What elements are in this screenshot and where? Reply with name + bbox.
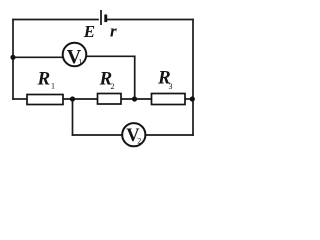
resistor R2 [98,69,122,105]
svg-text:1: 1 [78,58,82,67]
resistor R3 [152,68,186,105]
wire V2 right [145,134,194,136]
resistor R1 [27,69,63,105]
wire resistor row seg2 [63,98,98,100]
wire V1 right [86,55,135,57]
wire top-left segment [13,19,98,21]
wire resistor row seg4 [185,98,193,100]
wire right vertical [192,20,194,136]
svg-text:2: 2 [137,136,141,145]
svg-text:r: r [110,21,117,40]
svg-text:3: 3 [169,82,173,91]
svg-text:2: 2 [111,82,115,91]
wire top-right segment [107,19,193,21]
node dot between R2 and R3 [132,96,137,101]
node dot between R1 and R2 [70,96,75,101]
wire resistor row seg3 [121,98,152,100]
wire V2 left [73,134,124,136]
svg-text:1: 1 [51,82,55,91]
node dot right (R3 to right rail) [190,96,195,101]
wire left vertical [12,20,14,100]
svg-text:E: E [83,22,95,41]
wire V1 branch vertical [134,56,136,99]
voltmeter V1 [63,43,87,68]
wire resistor row seg1 [13,98,27,100]
wire V1 left [13,56,64,58]
battery E,r [101,10,107,25]
node dot left (V1 tap) [10,55,15,60]
voltmeter V2 [122,123,145,146]
wire V2 branch vertical [72,99,74,135]
svg-text:R: R [37,69,51,90]
